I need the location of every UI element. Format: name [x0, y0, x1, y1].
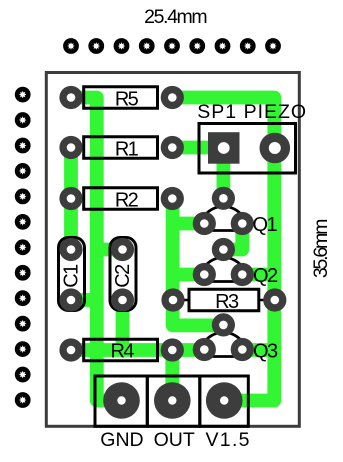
pad C2.top — [111, 238, 134, 261]
svg-text:R3: R3 — [215, 291, 239, 313]
pad OUT — [154, 382, 191, 419]
wire trace C2 bottom to R4 bus — [116, 300, 130, 350]
svg-text:C2: C2 — [112, 264, 134, 288]
pad R2.1 — [59, 187, 82, 210]
pad R2.2 — [161, 187, 184, 210]
board outline — [46, 73, 299, 427]
connector OUT box — [147, 376, 200, 426]
pad R5.2 — [161, 86, 184, 109]
pad SP1 square — [208, 132, 240, 164]
transistor Q2 outline — [199, 258, 247, 282]
speaker SP1 outline — [199, 124, 296, 174]
connector V1.5 box — [200, 376, 249, 426]
pad R3.2 — [263, 288, 286, 311]
wire trace to Q2 left — [173, 268, 205, 282]
wire trace R1 right to SP1 square pad — [172, 141, 223, 155]
wire trace R4 bus to Q3 left — [71, 343, 204, 357]
wire trace R4 right to OUT pad — [165, 350, 179, 401]
svg-text:R2: R2 — [115, 190, 139, 212]
wire trace Q2 right to V1.5 trace — [242, 268, 274, 282]
wire V1.5 trace: R5 right pad to SP1/R3 right and V1.5 pad — [172, 98, 274, 401]
pad R1.2 — [161, 136, 184, 159]
wire GND trace: R5 left pad to GND pad — [71, 98, 119, 401]
wire trace C1 bottom to GND trace — [71, 293, 97, 307]
wire trace SP1 square pad to Q1 top — [216, 148, 230, 198]
pad C1.top — [59, 238, 82, 261]
pad V1.5 — [206, 382, 243, 419]
capacitor C2 outline — [110, 238, 136, 311]
pad GND — [103, 382, 140, 419]
pad Q3.right — [231, 338, 254, 361]
svg-text:C1: C1 — [61, 264, 83, 288]
pad R4.2 — [161, 338, 184, 361]
pad SP1 round — [260, 133, 291, 164]
pad R4.1 — [59, 338, 82, 361]
pad C1.bot — [59, 288, 82, 311]
ruler dots left column — [15, 87, 31, 408]
pad Q2.right — [231, 263, 254, 286]
svg-text:35.6mm: 35.6mm — [310, 220, 332, 278]
pad R5.1 — [59, 86, 82, 109]
svg-text:Q2: Q2 — [253, 265, 278, 287]
wire trace R2 right to R3 left to Q3 top — [173, 199, 224, 326]
pad Q1.right — [231, 212, 254, 235]
resistor R3 outline — [189, 289, 259, 311]
resistor R5 outline — [84, 87, 158, 109]
ruler dots top row — [63, 38, 281, 54]
svg-text:R5: R5 — [115, 89, 139, 111]
svg-text:SP1 PIEZO: SP1 PIEZO — [197, 101, 307, 123]
transistor Q1 outline — [199, 207, 247, 231]
pad Q1.left — [193, 212, 216, 235]
svg-text:Q3: Q3 — [253, 340, 278, 362]
pad R3.1 — [161, 288, 184, 311]
lead R3 right — [258, 299, 275, 302]
lead R3 left — [173, 299, 190, 302]
svg-text:R1: R1 — [115, 139, 139, 161]
pad Q3.left — [193, 338, 216, 361]
svg-text:GND: GND — [100, 429, 143, 451]
wire trace Q3 right to V1.5 trace — [242, 343, 274, 357]
svg-text:OUT: OUT — [154, 429, 195, 451]
svg-text:R4: R4 — [111, 341, 135, 363]
resistor R4 outline — [84, 339, 158, 361]
transistor Q3 outline — [199, 333, 247, 357]
pad C2.bot — [111, 288, 134, 311]
svg-text:25.4mm: 25.4mm — [144, 6, 206, 28]
svg-text:Q1: Q1 — [253, 214, 278, 236]
wire trace Q1 right to Q2 top — [223, 224, 242, 250]
pad Q2.left — [193, 263, 216, 286]
wire trace to Q1 left — [173, 217, 205, 231]
wire trace GND trace to C2 top — [97, 243, 123, 257]
wire trace R1 left to R2 left to C1 top — [64, 148, 78, 250]
pad R1.1 — [59, 136, 82, 159]
pad Q1.top — [212, 187, 235, 210]
connector GND box — [95, 376, 147, 426]
svg-text:V1.5: V1.5 — [206, 429, 251, 451]
pad Q2.top — [212, 238, 235, 261]
resistor R1 outline — [84, 137, 158, 159]
capacitor C1 outline — [59, 238, 85, 311]
pad Q3.top — [212, 313, 235, 336]
resistor R2 outline — [84, 188, 158, 210]
